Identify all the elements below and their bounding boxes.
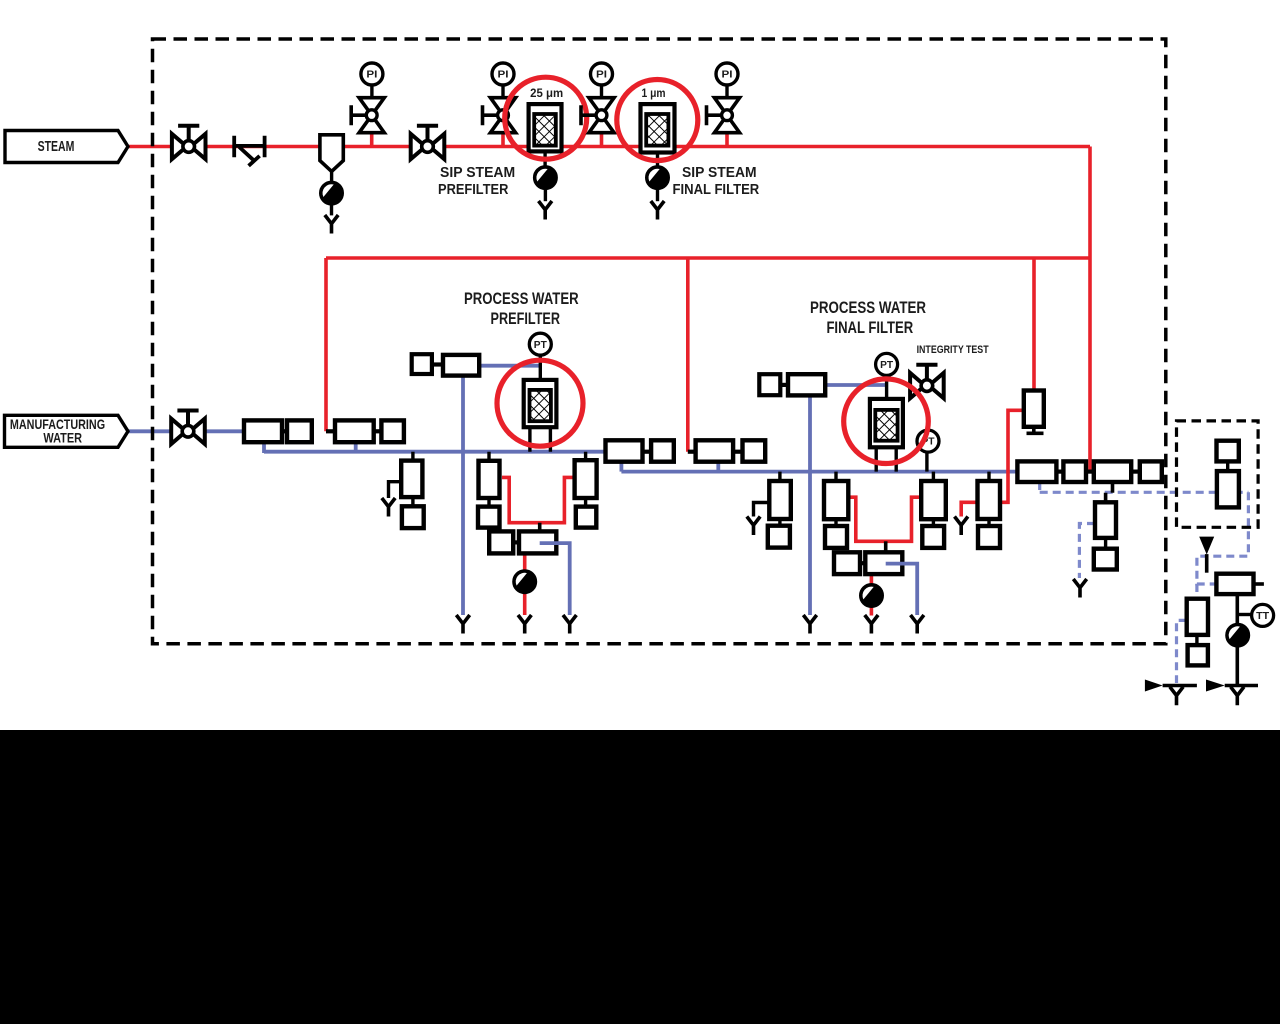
label PROCESS WATER PREFILTER bbox=[464, 290, 579, 328]
wire: final filter trap stem (red) bbox=[870, 574, 874, 616]
drain Y14 bbox=[1170, 687, 1183, 706]
filter F4 process water final filter cartridge bbox=[870, 399, 903, 472]
highlight circle filter F4 (red) bbox=[844, 379, 929, 464]
filter F3 process water prefilter cartridge bbox=[524, 380, 557, 452]
valve V3 ball valve bbox=[411, 126, 445, 160]
wire: PI1 stem bbox=[370, 85, 373, 98]
manifold valve block R1 bbox=[1017, 461, 1056, 482]
wire: steam drop B to prefilter outlet header bbox=[686, 258, 690, 452]
steam trap T1 bbox=[321, 182, 343, 204]
label SIP STEAM PREFILTER bbox=[438, 164, 515, 198]
svg-text:STEAM: STEAM bbox=[38, 138, 75, 155]
svg-text:FINAL FILTER: FINAL FILTER bbox=[826, 319, 913, 337]
svg-text:PREFILTER: PREFILTER bbox=[491, 310, 561, 328]
main dashed border frame bbox=[153, 39, 1166, 644]
svg-text:FINAL FILTER: FINAL FILTER bbox=[673, 181, 760, 198]
steam trap T6 bbox=[1227, 624, 1249, 646]
valve block pair prefilter drain bbox=[489, 531, 556, 553]
check valve CV1 bbox=[234, 136, 264, 166]
gauge TT1 bbox=[1237, 604, 1273, 626]
valve block pair above final filter bbox=[759, 374, 825, 395]
drain Y12 bbox=[955, 517, 968, 536]
wire: trap T3 drain stem bbox=[656, 188, 659, 201]
drain Y10 bbox=[865, 615, 878, 634]
valve V13 final filter drain left bbox=[824, 472, 848, 548]
manifold valve block R2 bbox=[1063, 461, 1086, 482]
valve V6 gauge isolation bbox=[707, 98, 740, 133]
valve V15 steam blowdown valve bbox=[978, 472, 1001, 548]
wire: final filter feed branch vertical (blue) bbox=[808, 395, 812, 615]
label PROCESS WATER FINAL FILTER bbox=[810, 299, 926, 337]
drain Y9 bbox=[803, 615, 816, 634]
wire: final filter sample stub (blue) bbox=[886, 564, 918, 615]
svg-text:PREFILTER: PREFILTER bbox=[438, 181, 508, 198]
steam trap T3 bbox=[647, 167, 669, 189]
filter F1 SIP steam prefilter cartridge bbox=[529, 104, 562, 167]
drain Y13 bbox=[1073, 579, 1086, 598]
wire: steam distribution header (red) bbox=[326, 256, 1090, 260]
wire: dashed blue drop from manifold bbox=[1038, 482, 1041, 492]
valve block pair 2 bbox=[335, 420, 404, 442]
wire: manifold stub R1-R2 bbox=[1057, 470, 1064, 474]
svg-text:1 μm: 1 μm bbox=[642, 88, 666, 100]
wire: red stem valve V5 bbox=[600, 131, 604, 147]
gauge PI1 bbox=[361, 63, 383, 85]
wire: prefilter sample stub (blue) bbox=[540, 543, 570, 615]
wire: manifold stub R3-R4 bbox=[1131, 470, 1140, 474]
valve V2 gauge isolation bbox=[351, 98, 384, 133]
drain Y2 bbox=[539, 201, 552, 220]
svg-text:SIP STEAM: SIP STEAM bbox=[440, 164, 515, 181]
wire: prefilter drain U-loop (red) bbox=[502, 477, 575, 522]
wire: red stem valve V6 bbox=[725, 131, 729, 147]
valve block assembly in dashed box bbox=[1217, 441, 1239, 508]
wire: steam drop C to sample cooler bbox=[1032, 258, 1036, 391]
steam trap T2 bbox=[535, 167, 557, 189]
wire: dashed blue drain valve outlet bbox=[1177, 620, 1187, 683]
wire: blue stem under valve block pair A bbox=[620, 462, 624, 472]
wire: PT2 stem bbox=[885, 376, 888, 400]
wire: black stub red drop A to valve block bbox=[326, 429, 335, 433]
drain Y11 bbox=[911, 615, 924, 634]
wire: black stub red drop B to valve block pair B bbox=[688, 450, 696, 454]
valve V5 gauge isolation bbox=[581, 98, 614, 133]
wire: final filter gauge branch (blue) bbox=[825, 383, 886, 387]
wire: dashed blue branch to drain valve bbox=[1195, 584, 1198, 599]
wire: blue stem under valve block pair 2 bbox=[354, 442, 358, 453]
sample cooler SC1 bbox=[1024, 391, 1044, 434]
svg-text:PROCESS WATER: PROCESS WATER bbox=[810, 299, 926, 317]
valve V12 final filter vent valve bbox=[754, 472, 791, 548]
separator funnel S1 bbox=[320, 135, 343, 183]
node: STEAM source tag bbox=[5, 131, 128, 163]
wire: HX1 outlet vertical bbox=[1236, 594, 1240, 685]
heat exchanger HX1 bbox=[1216, 574, 1264, 594]
valve V4 gauge isolation bbox=[483, 98, 516, 133]
valve V17 drain valve bbox=[1187, 599, 1208, 666]
vent arrow (down triangle) bbox=[1199, 537, 1214, 573]
wire: steam drop A to water inlet line bbox=[324, 258, 328, 431]
svg-text:SIP STEAM: SIP STEAM bbox=[682, 164, 757, 181]
label SIP STEAM FINAL FILTER bbox=[673, 164, 760, 198]
wire: prefilter header (blue) bbox=[264, 450, 606, 454]
steam trap T5 bbox=[861, 585, 883, 607]
svg-text:25 μm: 25 μm bbox=[530, 88, 563, 100]
highlight circle filter F1 (red) bbox=[505, 77, 587, 159]
valve V8 prefilter vent valve bbox=[389, 452, 424, 528]
filter F2 SIP steam final filter cartridge bbox=[641, 104, 675, 167]
wire: PT3 stem bbox=[925, 452, 928, 471]
wire: dashed blue vent routing bbox=[1197, 492, 1249, 584]
gauge PI3 bbox=[591, 63, 613, 85]
wire: trap T2 drain stem bbox=[544, 188, 547, 201]
wire: PT1 stem bbox=[539, 356, 542, 381]
wire: PI4 stem bbox=[725, 85, 728, 98]
valve block pair B bbox=[696, 440, 766, 461]
valve block pair above prefilter bbox=[412, 354, 480, 375]
valve V7 water inlet ball valve bbox=[171, 411, 205, 445]
highlight circle filter F3 (red) bbox=[497, 360, 583, 446]
gauge PT1 bbox=[529, 333, 551, 355]
drain Y8 bbox=[747, 517, 760, 536]
highlight circle filter F2 (red) bbox=[617, 80, 698, 161]
drain Y1 bbox=[325, 215, 338, 234]
drain Y15 bbox=[1231, 687, 1244, 706]
valve block pair final drain bbox=[834, 552, 902, 574]
svg-text:INTEGRITY TEST: INTEGRITY TEST bbox=[917, 344, 989, 356]
hose connection drain left bbox=[1145, 680, 1197, 692]
svg-text:PROCESS WATER: PROCESS WATER bbox=[464, 290, 579, 308]
wire: red stem valve V4 bbox=[501, 131, 505, 147]
hose connection drain right bbox=[1206, 680, 1258, 692]
wire: red stem valve V2 bbox=[370, 131, 374, 147]
wire: steam riser right side down to water manifold bbox=[1088, 147, 1092, 472]
wire: PI3 stem bbox=[600, 85, 603, 98]
valve V11 integrity test ball valve bbox=[910, 365, 944, 399]
wire: manifold stub R2-R3 bbox=[1086, 470, 1094, 474]
wire: prefilter feed branch vertical (blue) bbox=[461, 376, 465, 615]
drain Y3 bbox=[651, 201, 664, 220]
wire: dashed blue vent header bbox=[1040, 491, 1249, 494]
wire: trap T1 drain stem bbox=[330, 204, 333, 216]
gauge PT2 bbox=[876, 353, 898, 375]
valve V16 sampler valve bbox=[1094, 502, 1117, 569]
wire: sample cooler red piping bbox=[961, 410, 1024, 516]
svg-text:WATER: WATER bbox=[43, 429, 82, 445]
wire: PI2 stem bbox=[501, 85, 504, 98]
gauge PT3 bbox=[917, 430, 939, 452]
wire: manufacturing water inlet line (blue) bbox=[128, 429, 312, 433]
wire: dashed blue stub to sampler valve bbox=[1079, 524, 1095, 579]
gauge PI2 bbox=[492, 63, 514, 85]
manifold valve block R3 bbox=[1094, 461, 1131, 482]
valve V9 prefilter drain left bbox=[478, 452, 500, 528]
valve V1 steam inlet ball valve bbox=[172, 126, 206, 160]
wire: final filter header (blue) bbox=[621, 470, 1017, 474]
wire: black stem manifold to sampler valve bbox=[1106, 482, 1113, 502]
node: steam main line (red) bbox=[128, 145, 1090, 149]
wire: prefilter trap stem (red) bbox=[523, 553, 527, 615]
wire: prefilter gauge branch (blue) bbox=[479, 364, 540, 368]
gauge PI4 bbox=[716, 63, 738, 85]
wire: blue stem under valve block pair 1 bbox=[262, 442, 266, 453]
valve block pair 1 bbox=[244, 420, 312, 442]
valve block pair A bbox=[606, 440, 674, 461]
valve V14 final filter drain right bbox=[921, 472, 946, 548]
drain Y4 bbox=[382, 498, 395, 517]
wire: blue stem under valve block pair B bbox=[716, 462, 720, 472]
drain Y7 bbox=[563, 615, 576, 634]
valve V10 prefilter drain right bbox=[575, 452, 597, 528]
node: MANUFACTURING WATER source tag bbox=[5, 415, 129, 447]
drain Y6 bbox=[518, 615, 531, 634]
black footer bar bbox=[0, 730, 1280, 1024]
manifold valve block R4 bbox=[1140, 461, 1162, 482]
drain Y5 bbox=[456, 615, 469, 634]
wire: final filter drain U-loop (red) bbox=[848, 497, 921, 541]
svg-text:TT: TT bbox=[1256, 610, 1270, 622]
steam trap T4 bbox=[514, 571, 536, 593]
dashed instrument box bbox=[1177, 421, 1259, 527]
